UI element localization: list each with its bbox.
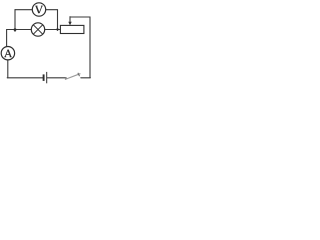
node junction at lamp/voltmeter left [14,28,17,31]
switch S1 lever [65,74,81,80]
wire [70,17,90,77]
lamp L1 [31,23,44,36]
wire [46,10,58,31]
switch S1 pivot [65,77,67,79]
wire [7,77,43,79]
node junction at rheostat/voltmeter right [56,28,58,30]
rheostat slider arrow [68,22,71,26]
battery B1 short thick plate [43,74,45,81]
rheostat R1 [60,25,84,33]
wire [14,10,16,32]
wire [6,30,9,47]
battery B1 long thin plate [46,72,48,83]
wire [15,9,32,11]
ammeter A1 [1,47,14,60]
voltmeter V1 [32,3,45,16]
wire [81,77,91,79]
switch S1 handle tick [78,73,80,76]
wire [7,29,32,31]
wire [47,77,65,79]
wire [7,60,9,78]
wire [45,29,61,31]
wire [69,17,71,23]
